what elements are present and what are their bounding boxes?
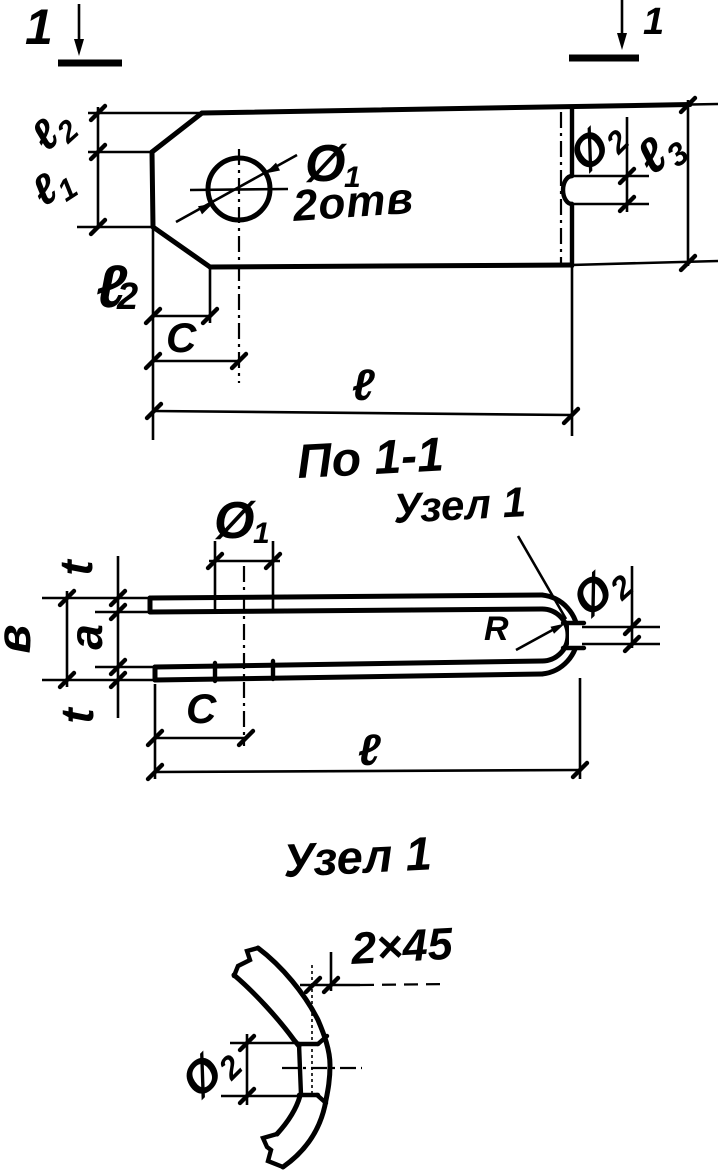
svg-text:R: R: [484, 610, 509, 648]
svg-text:1: 1: [25, 0, 53, 55]
svg-text:C: C: [166, 314, 197, 361]
svg-text:2отв: 2отв: [290, 174, 415, 231]
svg-text:1: 1: [253, 517, 270, 550]
svg-text:a: a: [60, 624, 112, 650]
svg-text:Ø: Ø: [214, 492, 257, 550]
svg-text:ℓ: ℓ: [358, 726, 381, 775]
svg-text:ℓ: ℓ: [352, 361, 375, 410]
svg-text:C: C: [186, 685, 217, 732]
svg-text:2×45: 2×45: [349, 918, 455, 974]
svg-text:По 1-1: По 1-1: [296, 428, 445, 489]
svg-text:2: 2: [116, 276, 138, 318]
svg-text:t: t: [51, 707, 103, 724]
svg-text:1: 1: [643, 1, 664, 43]
svg-text:Узел 1: Узел 1: [282, 826, 433, 887]
svg-text:t: t: [50, 559, 102, 576]
svg-text:Узел 1: Узел 1: [392, 478, 527, 532]
svg-text:в: в: [0, 625, 41, 654]
